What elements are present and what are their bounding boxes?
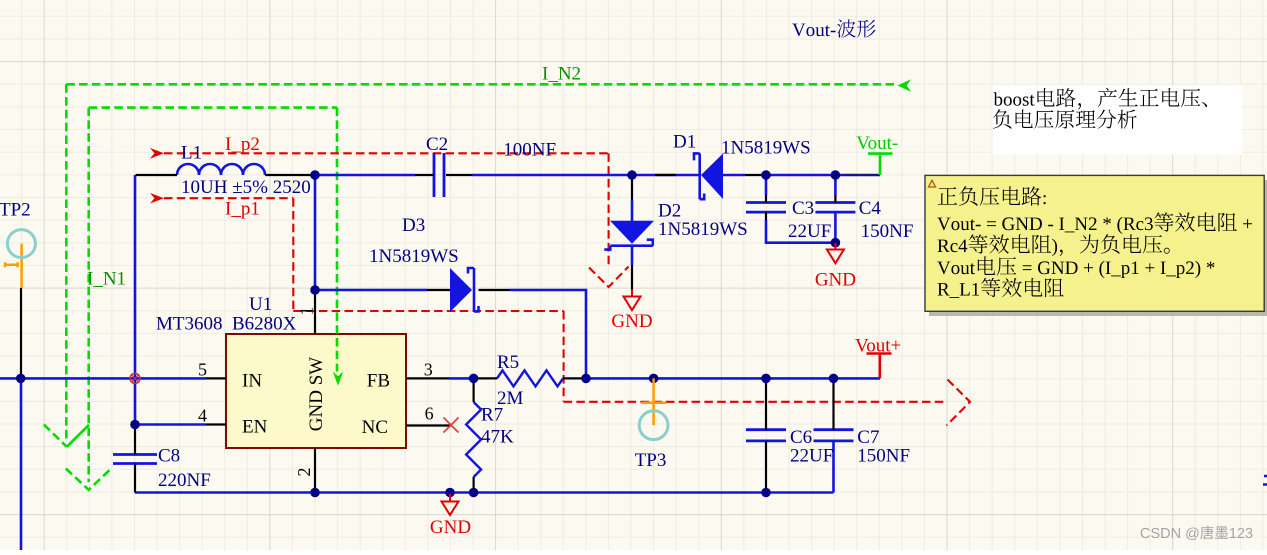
svg-text:I_p2: I_p2 — [225, 134, 260, 155]
svg-text:1N5819WS: 1N5819WS — [721, 138, 811, 159]
svg-text:EN: EN — [242, 417, 268, 438]
svg-text:220NF: 220NF — [158, 470, 211, 491]
svg-text:GND: GND — [611, 311, 652, 332]
svg-text:3: 3 — [424, 359, 433, 379]
svg-text:150NF: 150NF — [861, 221, 914, 242]
svg-text:GND: GND — [430, 517, 471, 538]
svg-text:U1: U1 — [249, 294, 272, 315]
svg-text:I_p1: I_p1 — [225, 199, 260, 220]
svg-text:150NF: 150NF — [857, 446, 910, 467]
svg-text:22UF: 22UF — [790, 446, 833, 467]
svg-text:R7: R7 — [481, 405, 503, 426]
svg-text:C2: C2 — [426, 134, 448, 155]
svg-text:L1: L1 — [181, 143, 202, 164]
svg-text:10UH ±5% 2520: 10UH ±5% 2520 — [181, 177, 311, 198]
svg-text:I_N1: I_N1 — [87, 269, 126, 290]
svg-text:22UF: 22UF — [788, 221, 831, 242]
svg-text:TP3: TP3 — [635, 450, 667, 471]
svg-text:1N5819WS: 1N5819WS — [658, 219, 748, 240]
svg-text:4: 4 — [198, 406, 207, 426]
svg-text:D1: D1 — [673, 132, 696, 153]
svg-text:R5: R5 — [497, 352, 519, 373]
svg-text:IN: IN — [242, 371, 262, 392]
svg-text:TP2: TP2 — [0, 200, 31, 221]
svg-text:5: 5 — [198, 359, 207, 379]
svg-text:MT3608 B6280X: MT3608 B6280X — [156, 314, 297, 335]
svg-text:FB: FB — [367, 371, 390, 392]
svg-text:100NF: 100NF — [503, 140, 556, 161]
svg-text:Vout-: Vout- — [856, 133, 898, 154]
svg-text:C3: C3 — [792, 198, 814, 219]
svg-text:C8: C8 — [158, 446, 180, 467]
svg-text:1N5819WS: 1N5819WS — [369, 246, 459, 267]
svg-text:Vout+: Vout+ — [855, 336, 901, 357]
svg-text:6: 6 — [425, 404, 434, 424]
svg-text:GND SW: GND SW — [306, 357, 327, 431]
svg-text:C4: C4 — [859, 198, 882, 219]
svg-text:2: 2 — [294, 468, 314, 477]
svg-text:GND: GND — [815, 270, 856, 291]
svg-text:D3: D3 — [402, 215, 425, 236]
svg-text:NC: NC — [362, 417, 388, 438]
svg-text:1: 1 — [297, 307, 317, 316]
svg-text:47K: 47K — [481, 427, 514, 448]
svg-text:I_N2: I_N2 — [542, 64, 581, 85]
